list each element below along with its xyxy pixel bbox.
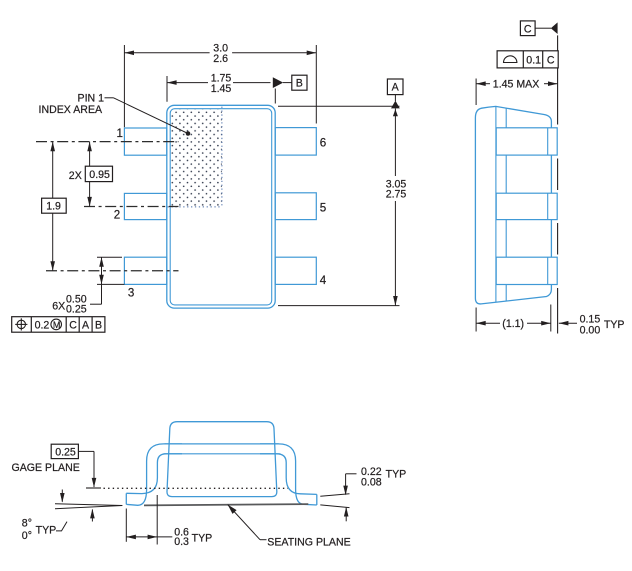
pin 1 (left top) bbox=[124, 128, 166, 155]
pin 2 (left middle) bbox=[124, 193, 166, 219]
svg-text:(1.1): (1.1) bbox=[502, 318, 524, 330]
svg-text:TYP: TYP bbox=[386, 469, 407, 481]
dimension 3.0/2.6 overall width bbox=[124, 45, 316, 127]
dimension 2X 0.95 pin pitch bbox=[87, 142, 92, 207]
svg-text:0.95: 0.95 bbox=[89, 169, 110, 181]
dimension 1.75/1.45 body width with datum B bbox=[167, 76, 292, 104]
svg-text:0.25: 0.25 bbox=[66, 303, 87, 315]
pin 4 (right bottom) bbox=[275, 257, 316, 284]
svg-text:M: M bbox=[53, 320, 61, 330]
svg-text:C: C bbox=[524, 23, 532, 35]
bottom view body bbox=[167, 422, 277, 497]
seating plane label and leader bbox=[228, 505, 267, 540]
dimension 6X 0.50/0.25 pin width bbox=[90, 257, 124, 304]
svg-text:2: 2 bbox=[114, 209, 120, 222]
svg-text:TYP: TYP bbox=[36, 524, 57, 536]
svg-text:1.9: 1.9 bbox=[46, 201, 61, 213]
svg-text:0.1: 0.1 bbox=[526, 54, 541, 66]
left gull-wing lead bbox=[126, 444, 182, 505]
svg-text:A: A bbox=[82, 319, 90, 331]
svg-text:C: C bbox=[547, 54, 555, 66]
svg-text:TYP: TYP bbox=[604, 319, 625, 331]
svg-text:0.08: 0.08 bbox=[361, 476, 382, 488]
dimension 1.9 pin span bbox=[50, 142, 55, 271]
svg-text:SEATING PLANE: SEATING PLANE bbox=[267, 536, 350, 548]
lead angle wedge lines bbox=[55, 504, 122, 509]
svg-text:5: 5 bbox=[320, 201, 326, 214]
dimension 1.45 MAX package thickness bbox=[476, 79, 557, 106]
svg-text:0.2: 0.2 bbox=[35, 319, 50, 331]
pin 6 (right top) bbox=[275, 128, 316, 156]
svg-text:1: 1 bbox=[117, 127, 123, 140]
dimension (1.1) body thickness bbox=[476, 305, 551, 332]
side view lead 2 bbox=[496, 193, 557, 219]
angle dimension arrows bbox=[60, 490, 95, 522]
svg-text:B: B bbox=[296, 77, 303, 89]
svg-text:PIN 1: PIN 1 bbox=[78, 93, 105, 105]
side view lead 1 bbox=[496, 128, 557, 155]
svg-text:4: 4 bbox=[320, 274, 327, 287]
dimension 0.15/0.00 TYP lead tip bbox=[559, 321, 577, 326]
gage plane dotted line bbox=[86, 487, 288, 489]
svg-text:C: C bbox=[69, 319, 77, 331]
svg-text:6X: 6X bbox=[52, 301, 65, 313]
svg-text:0.25: 0.25 bbox=[55, 446, 76, 458]
svg-text:A: A bbox=[392, 82, 400, 94]
dimension 0.6/0.3 TYP foot length bbox=[126, 495, 172, 545]
svg-text:INDEX AREA: INDEX AREA bbox=[39, 104, 104, 116]
centerline pin 2 row bbox=[84, 206, 179, 208]
svg-text:GAGE PLANE: GAGE PLANE bbox=[12, 462, 80, 474]
svg-text:2.6: 2.6 bbox=[213, 53, 228, 65]
right gull-wing lead bbox=[260, 444, 317, 505]
seating plane line bbox=[144, 504, 308, 505]
front view package body bbox=[167, 105, 275, 308]
pin 3 (left bottom) bbox=[124, 257, 166, 284]
side view body bbox=[475, 106, 551, 304]
dimension 3.05/2.75 body height bbox=[278, 95, 400, 306]
datum B symbol bbox=[292, 75, 307, 90]
svg-text:2X: 2X bbox=[69, 170, 82, 182]
pin 1 index area stipple bbox=[168, 107, 222, 207]
svg-text:2.75: 2.75 bbox=[386, 189, 407, 201]
svg-text:6: 6 bbox=[320, 137, 326, 150]
feature control frame position 0.2 M C A B bbox=[12, 317, 105, 333]
centerline pin 1 row bbox=[36, 141, 179, 143]
feature control frame profile 0.1 C bbox=[497, 51, 558, 68]
gage plane label and 0.25 box bbox=[78, 451, 96, 487]
lead shoulder lines bbox=[164, 444, 281, 454]
datum C extension line (lead tip plane) bbox=[557, 35, 559, 333]
svg-text:8°: 8° bbox=[22, 517, 32, 529]
svg-text:0.00: 0.00 bbox=[580, 324, 601, 336]
dimension 0.22/0.08 TYP lead thickness bbox=[320, 474, 356, 522]
centerline pin 3 row bbox=[46, 270, 179, 272]
svg-text:B: B bbox=[95, 319, 102, 331]
datum C symbol with leader triangle bbox=[520, 21, 557, 36]
svg-text:1.45: 1.45 bbox=[211, 83, 232, 95]
svg-text:3: 3 bbox=[128, 286, 134, 299]
svg-text:0.3: 0.3 bbox=[174, 536, 189, 548]
pin 5 (right middle) bbox=[275, 193, 316, 220]
side view lead 3 bbox=[496, 257, 557, 284]
svg-text:1.45 MAX: 1.45 MAX bbox=[493, 79, 540, 91]
svg-text:0°: 0° bbox=[22, 530, 32, 542]
svg-text:TYP: TYP bbox=[192, 532, 213, 544]
datum A symbol bbox=[387, 79, 403, 95]
